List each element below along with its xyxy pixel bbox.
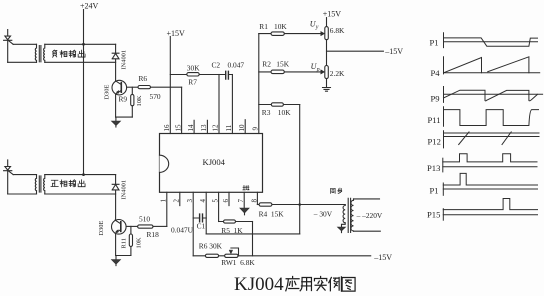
svg-text:P1: P1 [430,37,439,47]
svg-text:+15V: +15V [323,9,342,18]
waveform P13 axis [442,158,444,172]
label 地 (ground pin name) [243,186,249,190]
resistor R11 (vertical) [129,234,132,247]
wire Q2 base lead [126,225,138,227]
transformer T2 secondary winding [44,175,45,194]
waveform P15 second line [443,214,537,216]
wire R11 leads [130,226,132,255]
pin 9 lead (bus to R1/R2/R3) [258,34,260,134]
wire T3 secondary bottom [354,230,381,232]
waveform P11 square trace [444,110,539,126]
transformer T2 core [39,176,41,192]
svg-text:P12: P12 [428,137,441,147]
resistor 6.8K (vertical) [325,27,329,40]
waveform P15 axis [442,209,444,221]
resistor R1 body [271,32,284,36]
wire Q1 base lead [127,86,138,88]
svg-text:2.2K: 2.2K [330,69,345,78]
waveform P13 second line [443,166,537,168]
title 应用实例图 [286,277,355,292]
pin 13 stub [206,120,208,133]
waveform P14 axis [442,183,444,195]
wire emitter-R9 bottom [116,116,133,118]
svg-text:y: y [315,24,319,30]
waveform P11 axis [443,107,445,126]
svg-text:P4: P4 [431,68,441,78]
svg-text:p: p [316,67,320,73]
transformer T2 primary winding [35,175,36,194]
wire T3 secondary top [354,198,380,200]
svg-text:11: 11 [225,124,233,131]
pin 12 lead [218,75,220,134]
wire lower output box top [45,174,116,176]
svg-text:R6 30K: R6 30K [199,241,223,250]
svg-text:R6: R6 [139,74,148,83]
svg-text:0.047U: 0.047U [171,226,194,235]
transformer T1 secondary winding [44,44,45,62]
svg-text:30K: 30K [187,64,200,73]
resistor R6 30K (horizontal) [205,254,218,257]
svg-text:10: 10 [238,124,246,132]
wire 6.8K to junction [326,40,328,66]
svg-text:IN4001: IN4001 [121,50,128,70]
pin 4 lead [205,192,207,234]
waveform P13 trace with pulses [443,154,537,162]
wire RW1 rail (pin3 to -15V) [193,255,371,257]
waveform P9 axis [443,87,445,103]
svg-text:0.047: 0.047 [228,61,245,70]
waveform P9 trace [444,90,538,101]
svg-text:R1: R1 [259,22,268,31]
junction dot on upper transformer box top wire [82,43,85,46]
wire upper box right edge [115,44,117,80]
wire R7 rail (pin16 to C2/pin11) [170,74,232,76]
svg-text:14: 14 [187,124,195,132]
transformer T1 core [39,46,41,62]
transistor Q2 D30E (lower) [112,220,127,235]
resistor R2 body [271,70,284,74]
wire R2 row [259,71,322,73]
wire +15V stub [326,18,328,27]
wire upper output box bottom [45,61,116,63]
wire lower output box bottom [45,193,116,195]
waveform P12 line A [444,132,540,134]
wire R9 leads [131,87,133,117]
svg-text:P1: P1 [430,185,439,195]
waveform P15 trace with pulse [443,199,537,210]
waveform P4 baseline [444,72,540,74]
ground (under Q1 emitter) [115,117,117,121]
resistor R18 510 (horizontal) [138,225,153,228]
label 同步 [331,188,335,193]
transformer T3 secondary winding [351,199,354,231]
svg-text:P9: P9 [431,93,440,103]
potentiometer RW1 body [225,254,238,257]
pin 8 lead [256,192,258,204]
svg-text:C1: C1 [197,222,206,231]
IC U1 KJ004 body [160,134,263,193]
pin 1 lead to R18 [166,192,168,226]
svg-text:KJ004: KJ004 [203,157,226,167]
waveform P12 axis [443,131,445,148]
transformer T3 core [348,198,350,232]
pin 11 lead [231,75,233,134]
pin numbers top [163,124,260,132]
svg-text:–15V: –15V [373,253,392,262]
svg-text:10K: 10K [274,22,287,31]
waveform P9 baseline [444,93,543,95]
ground (under Q2 emitter) [115,256,117,260]
wire lower box right edge [115,175,117,220]
waveform P14 second line [443,188,537,190]
capacitor C1 (between pin3 and pin4 lines) [193,217,206,219]
svg-text:10K: 10K [136,237,143,248]
svg-text:– 30V: – 30V [313,209,333,218]
svg-text:15K: 15K [276,59,289,68]
svg-text:10K: 10K [278,108,291,117]
svg-text:12: 12 [212,124,220,132]
arrow into 2.2K (Up) [321,70,325,74]
thyristor V1 (upper-left SCR) [4,30,14,63]
waveform P12 slash 2 [502,132,511,145]
svg-text:D30E: D30E [98,220,105,235]
wire Q1 emitter down [115,95,117,117]
wire emitter-R11 bottom [116,255,131,257]
pin numbers bottom [160,199,259,203]
svg-text:R9: R9 [119,95,128,104]
transistor Q1 D30E (upper) [112,80,127,95]
pin 15 lead [181,87,183,133]
wire R1 row [259,33,322,35]
thyristor V2 (lower-left SCR) [4,160,14,194]
ground (pin 7) [240,208,249,213]
IC notch [160,155,169,172]
wire lower loop top [13,174,36,176]
pin 16 lead + +15V [169,37,171,134]
svg-text:R5 1K: R5 1K [221,226,243,235]
junction dot (R3/R4/sync node) [298,203,301,206]
resistor R9 (vertical) [131,94,134,105]
waveform P1 second line [444,41,538,43]
diode D2 IN4001 (lower) [112,184,119,190]
waveform P12 line B [444,136,540,138]
resistor R5 1K [224,220,236,223]
wire R18 to pin1 [153,225,167,227]
wire R5 row [219,221,253,223]
pin 14 stub [193,120,195,133]
resistor R3 body [271,103,283,106]
waveform P4 axis [443,57,445,74]
wire Q2 emitter down [115,234,117,256]
junction dot on lower transformer box top wire [82,173,85,176]
svg-text:R2: R2 [262,59,271,68]
svg-text:10K: 10K [136,95,143,106]
capacitor C2 [226,71,229,79]
svg-text:R7: R7 [188,77,197,86]
pin 7 lead to ground [243,192,245,208]
svg-text:P11: P11 [428,115,441,125]
potentiometer RW1 wiper [231,248,239,256]
svg-text:16: 16 [163,124,171,132]
wire +24V vertical bus [83,10,85,175]
svg-text:15: 15 [174,124,182,132]
svg-text:570: 570 [150,92,161,101]
diode D1 IN4001 (upper) [112,53,119,59]
svg-text:6.8K: 6.8K [330,26,345,35]
pin 3 lead (long, to 30K wire) [192,192,194,256]
arrow into 6.8K (Uy) [321,32,325,36]
resistor R4 15K [259,203,272,206]
waveform P1 trace [444,38,538,46]
resistor R7 30K [187,73,199,76]
svg-text:R4 15K: R4 15K [259,210,285,219]
svg-text:KJ004: KJ004 [234,274,284,295]
svg-text:– –220V: – –220V [356,211,383,220]
resistor R6 570 (horizontal) [138,86,151,89]
svg-text:–15V: –15V [384,47,403,56]
wire upper loop top [13,43,36,45]
svg-text:R3: R3 [262,108,271,117]
wire pin4 row to right vertical [206,233,300,235]
svg-text:3: 3 [186,199,194,203]
svg-text:+15V: +15V [167,29,186,38]
resistor 2.2K (vertical) [325,66,329,79]
ground (T3 primary) [337,227,345,231]
label 正相输出 (lower box) [51,180,85,187]
svg-text:R11: R11 [121,238,128,248]
svg-text:+24V: +24V [80,2,99,11]
pin 6 stub [228,192,230,205]
svg-text:RW1 6.8K: RW1 6.8K [221,258,255,267]
transformer T1 primary winding [35,44,36,62]
label 负相输出 (upper box) [53,50,85,57]
pin 5 lead [218,192,220,221]
svg-text:510: 510 [139,215,150,224]
pin 2 stub [179,192,181,205]
waveform P4 sawtooth [444,57,529,73]
svg-text:P13: P13 [427,163,440,173]
wire base to R6 [151,86,182,88]
wire upper loop bottom [8,61,37,63]
waveform P12 slash 1 [459,132,469,145]
svg-text:P15: P15 [427,210,440,220]
pin 10 stub [244,120,246,134]
waveform P1 axis [443,33,445,48]
svg-text:R18: R18 [147,230,160,239]
wire to -15V (top) [327,50,384,52]
svg-text:C2: C2 [212,61,221,70]
svg-text:D30E: D30E [103,84,110,99]
wire 2.2K to ground [326,79,328,88]
wire upper output box top [45,43,116,45]
svg-text:IN4001: IN4001 [120,180,127,200]
wire lower loop bottom [8,193,37,195]
wire R3 row [259,104,300,106]
wire R3 right vertical [299,105,301,234]
ground (under 2.2K) [323,88,331,92]
wire R4 row [257,204,345,206]
svg-text:13: 13 [200,124,208,132]
transformer T3 primary winding [342,205,346,227]
waveform P14 trace with pulse [443,173,537,185]
wire R5 down to RW1 rail [252,222,254,256]
svg-text:9: 9 [252,127,260,131]
